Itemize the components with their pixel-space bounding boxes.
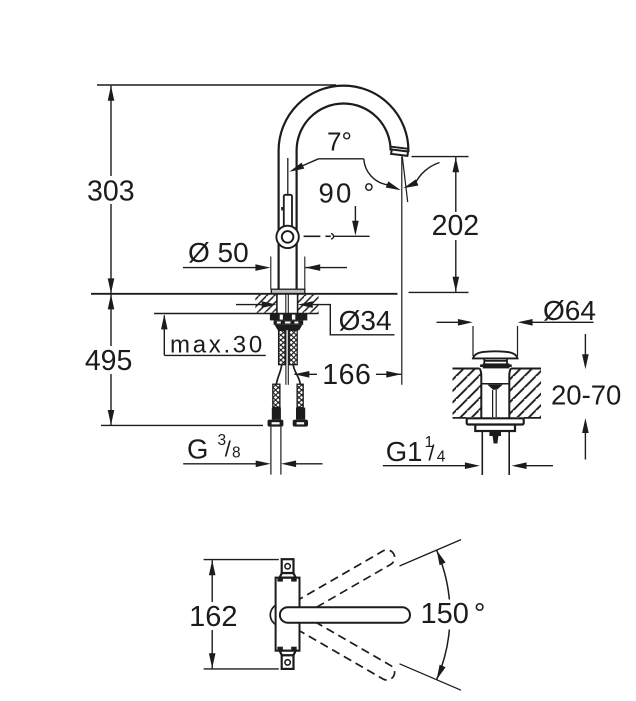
svg-text:150°: 150° bbox=[421, 598, 486, 630]
svg-text:8: 8 bbox=[232, 444, 241, 461]
left supply hose braided section bbox=[279, 330, 286, 364]
svg-text:495: 495 bbox=[85, 345, 133, 377]
counter underside line bbox=[154, 313, 319, 315]
90 degree down arrow bbox=[354, 206, 356, 222]
body bottom inner marks bbox=[277, 647, 283, 650]
dim 162 dimension line with arrows bbox=[211, 560, 213, 668]
drain plug stem bbox=[484, 359, 507, 364]
svg-text:Ø 50: Ø 50 bbox=[188, 237, 249, 268]
top handle flange trapezoid bbox=[280, 573, 296, 578]
drain flange bar bbox=[467, 418, 524, 424]
bottom handle screw bbox=[285, 660, 290, 665]
drain plug dome cap bbox=[473, 351, 518, 358]
top handle screw bbox=[285, 564, 290, 569]
150 degree label bbox=[417, 600, 486, 630]
spout aerator bbox=[391, 150, 408, 156]
spout solid position (top view) bbox=[280, 607, 410, 623]
drain tailpiece walls bbox=[482, 431, 509, 475]
right hose connector braid bbox=[297, 384, 303, 407]
dim 495 dimension line with arrows bbox=[110, 294, 112, 425]
bottom handle block bbox=[282, 655, 294, 669]
drain interior funnel bbox=[487, 385, 502, 390]
dim 202 top extension line bbox=[412, 156, 469, 158]
handle pivot outer circle bbox=[276, 226, 298, 248]
150 degree arc with arrows bbox=[437, 550, 450, 680]
countertop hatch left block (side view) bbox=[255, 295, 276, 313]
7 degree right arc with arrow bbox=[415, 163, 440, 185]
left hose curve bbox=[276, 365, 281, 385]
body top inner marks bbox=[277, 578, 283, 581]
dim 20-70 upper line with arrow bbox=[584, 334, 586, 355]
svg-text:202: 202 bbox=[432, 210, 480, 242]
outlet vertical centerline bbox=[401, 156, 403, 384]
dim D50 extension lines bbox=[271, 257, 305, 290]
countertop top line (drain view) bbox=[453, 368, 542, 370]
drain nipple bbox=[489, 431, 501, 436]
G 3/8 thread lines bbox=[271, 427, 281, 475]
left hose connector braid bbox=[273, 384, 280, 407]
pull rod lines inside shank bbox=[286, 294, 289, 313]
svg-text:Ø64: Ø64 bbox=[543, 295, 596, 326]
drain interior rod bbox=[493, 390, 497, 417]
pull rod below nut bbox=[286, 330, 288, 385]
dashed spout swivel positions bbox=[277, 547, 397, 683]
dim D34 arrows bbox=[236, 304, 263, 306]
right supply hose braided section bbox=[289, 330, 297, 364]
svg-text:/: / bbox=[428, 440, 435, 465]
svg-text:90 °: 90 ° bbox=[319, 178, 377, 209]
dim 20-70 lower line with arrow bbox=[584, 433, 586, 460]
countertop line (side view) bbox=[91, 293, 398, 295]
dim 303 top extension line bbox=[97, 84, 336, 86]
faucet body (top view) bbox=[276, 578, 300, 651]
right hose end cap bbox=[293, 420, 308, 427]
dim 162 bottom extension line bbox=[204, 668, 279, 670]
handle lever stick bbox=[284, 195, 292, 229]
tapered collar bbox=[275, 325, 303, 331]
dim 202 bottom extension line bbox=[409, 291, 469, 293]
svg-text:Ø34: Ø34 bbox=[339, 305, 392, 336]
max.30 leader line and arrow bbox=[163, 316, 165, 356]
dim D50 dimension lines and arrows bbox=[183, 267, 347, 269]
svg-text:max.30: max.30 bbox=[170, 332, 265, 359]
right hose fitting bbox=[296, 408, 305, 420]
right hose curve bbox=[293, 365, 300, 385]
handle pivot inner circle bbox=[282, 231, 294, 243]
swivel bearing circle (top view) bbox=[270, 604, 293, 627]
mounting shank walls bbox=[277, 294, 298, 313]
left hose fitting bbox=[272, 408, 281, 420]
7 degree leader bar bbox=[319, 158, 364, 160]
top handle block bbox=[282, 559, 294, 573]
svg-text:166: 166 bbox=[322, 359, 371, 391]
drain locknut bbox=[475, 425, 515, 431]
left hose end cap bbox=[268, 420, 284, 427]
svg-text:/: / bbox=[225, 437, 232, 462]
G1 1/4 dimension line and arrows bbox=[383, 465, 465, 467]
outlet 7-degree tilted line bbox=[402, 157, 407, 202]
svg-text:7°: 7° bbox=[327, 126, 352, 156]
max.30 underline bbox=[164, 354, 265, 356]
handle shaft line bbox=[287, 158, 289, 195]
leader arrow to handle shaft bbox=[302, 159, 319, 166]
dim D34 leader bbox=[313, 305, 395, 335]
svg-text:162: 162 bbox=[189, 601, 237, 633]
drain plug seal bbox=[483, 363, 510, 368]
mounting nut bbox=[270, 314, 307, 321]
drain body walls through counter bbox=[480, 369, 482, 418]
svg-text:20-70: 20-70 bbox=[551, 380, 621, 411]
dim D64 extension lines bbox=[473, 326, 518, 356]
svg-text:G: G bbox=[187, 433, 208, 464]
svg-text:G1: G1 bbox=[386, 436, 423, 467]
dim D64 dimension lines and arrows bbox=[437, 321, 594, 323]
dim 202 dimension line with arrows bbox=[455, 157, 457, 292]
dim 303 dimension line with arrows bbox=[110, 86, 112, 294]
drain interior shelf bbox=[482, 383, 509, 385]
svg-text:4: 4 bbox=[437, 448, 446, 465]
150 degree extension lines bbox=[400, 540, 462, 691]
dim 166 arrows bbox=[294, 373, 317, 375]
bottom handle flange trapezoid bbox=[280, 651, 296, 656]
faucet spout gooseneck inner contour bbox=[297, 103, 391, 291]
countertop hatch right block (drain view) bbox=[509, 369, 541, 417]
horseshoe washer bbox=[274, 320, 304, 324]
spout tip cut line bbox=[391, 147, 408, 149]
faucet spout gooseneck outer contour bbox=[279, 86, 409, 291]
countertop hatch left block (drain view) bbox=[453, 369, 482, 417]
countertop underside line (drain view) bbox=[453, 417, 542, 419]
countertop hatch right block (side view) bbox=[298, 295, 319, 313]
7 degree left arc with arrow bbox=[364, 159, 388, 185]
G 3/8 dimension line and arrows bbox=[183, 463, 256, 465]
handle tick mark bbox=[281, 207, 284, 210]
dim 495 bottom extension line bbox=[101, 424, 263, 426]
dim 162 top extension line bbox=[204, 559, 279, 561]
svg-text:303: 303 bbox=[87, 175, 135, 207]
faucet base flange bbox=[271, 289, 305, 293]
handle horizontal position dashed bbox=[304, 235, 331, 237]
